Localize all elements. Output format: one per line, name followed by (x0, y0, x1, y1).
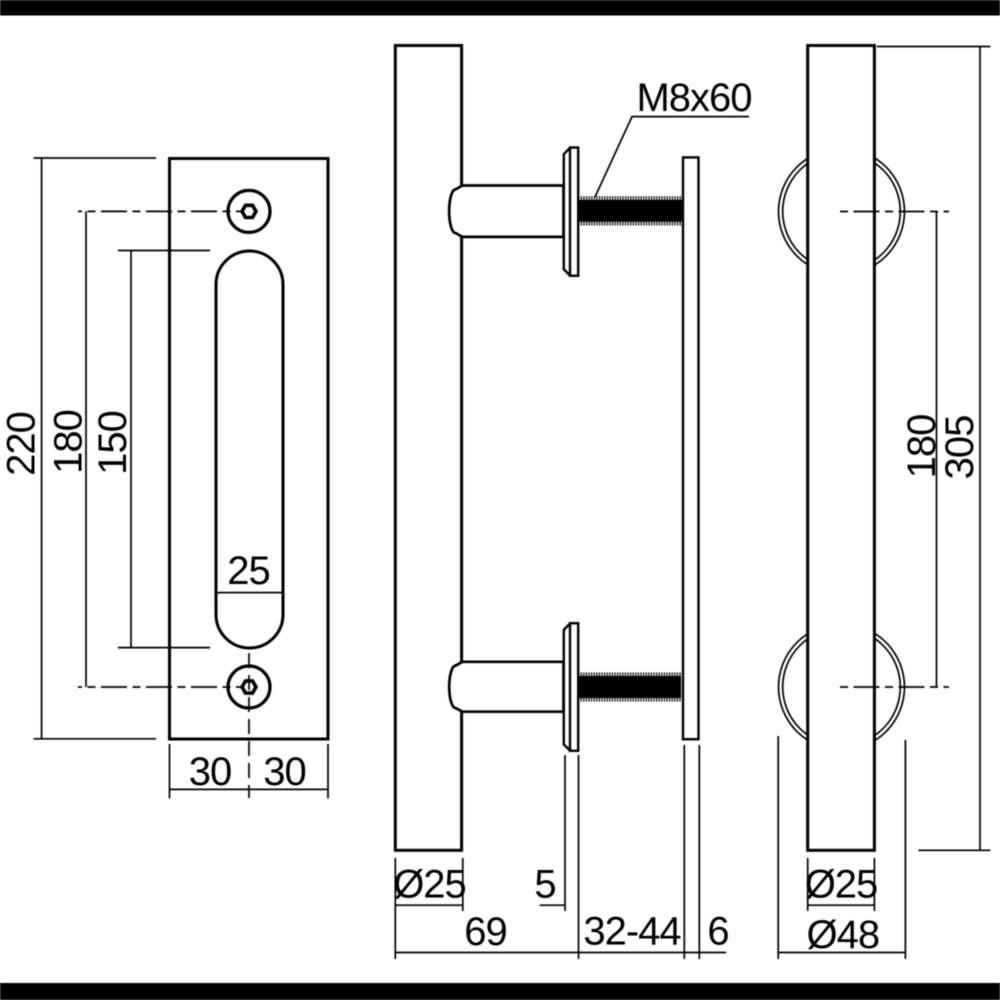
svg-text:30: 30 (189, 750, 232, 794)
plate outline (170, 159, 329, 740)
top threaded rod serration upper (578, 196, 682, 200)
bottom rosette centerline (840, 686, 949, 688)
bottom screw centerline horizontal (78, 686, 242, 688)
door extension right (698, 745, 700, 959)
dim Ø48 extension right (904, 740, 906, 959)
dim 305 line (979, 47, 981, 851)
top threaded rod M8 core (578, 200, 682, 222)
svg-text:25: 25 (227, 549, 270, 593)
bottom screw hex socket (242, 681, 256, 693)
bottom screw centerline vertical (248, 653, 250, 798)
svg-text:180: 180 (47, 410, 91, 474)
top letterbox bar (0, 0, 1000, 16)
bottom letterbox bar (0, 983, 1000, 1000)
bottom rosette flange rim (564, 624, 570, 751)
svg-text:180: 180 (900, 415, 944, 479)
dim 30+30 line (170, 788, 329, 790)
bottom rosette outer circle (779, 624, 905, 750)
label M8x60 leader (595, 117, 749, 197)
bottom screw circle (228, 666, 270, 708)
bottom threaded rod M8 core (578, 676, 681, 698)
top threaded rod serration lower (578, 222, 682, 226)
dim 305 extension bottom (918, 849, 990, 851)
dim 220 extension top (34, 157, 157, 159)
handle bar side (395, 46, 461, 851)
svg-text:30: 30 (263, 750, 306, 794)
top standoff neck (449, 186, 563, 237)
dim 5 extension right (578, 755, 580, 959)
bottom rosette inner circle (783, 628, 901, 746)
svg-text:69: 69 (464, 910, 507, 954)
dim 180 line (85, 211, 87, 687)
svg-text:5: 5 (534, 863, 555, 907)
top rosette centerline (840, 211, 949, 213)
dim 30+30 extension left (169, 744, 171, 798)
dim 220 extension bottom (34, 738, 157, 740)
dim Ø48 extension left (777, 736, 779, 959)
dim Ø25 extension left (right view) (807, 858, 809, 911)
bottom rosette flange face (570, 623, 578, 751)
svg-text:6: 6 (707, 910, 728, 954)
door extension left (683, 745, 685, 959)
top screw hex socket (242, 205, 256, 217)
dim Ø25 extension right (right view) (873, 858, 875, 911)
svg-text:Ø25: Ø25 (393, 863, 466, 907)
handle bar front (808, 46, 875, 851)
dim 5 extension left (564, 755, 566, 911)
dim Ø25 extension left (middle) (394, 858, 396, 959)
dim Ø25 line (right view) (808, 904, 875, 906)
svg-text:32-44: 32-44 (583, 910, 681, 954)
dim 150 extension bottom (118, 647, 210, 649)
bottom standoff neck (449, 662, 563, 712)
dim Ø48 line (778, 952, 905, 954)
svg-text:Ø25: Ø25 (805, 863, 878, 907)
dim 5 line (540, 904, 565, 906)
svg-text:305: 305 (938, 416, 982, 480)
door panel edge (683, 157, 699, 739)
dim 150 extension top (118, 250, 210, 252)
dim 305 extension top (877, 46, 990, 48)
top rosette flange face (570, 148, 578, 276)
top screw circle (228, 190, 270, 232)
svg-text:220: 220 (0, 412, 44, 476)
top rosette flange rim (564, 148, 570, 276)
dim 69 line (395, 952, 726, 954)
top rosette outer circle (779, 149, 905, 275)
bottom threaded rod serration lower (578, 698, 681, 702)
bottom threaded rod serration upper (578, 672, 681, 676)
svg-text:150: 150 (91, 411, 135, 475)
dim 220 line (41, 158, 43, 739)
svg-text:M8x60: M8x60 (636, 76, 751, 120)
dim Ø25 extension right (middle) (462, 858, 464, 911)
dim 30+30 extension right (327, 744, 329, 798)
dim Ø25 line (middle) (395, 904, 463, 906)
finger slot (216, 251, 283, 648)
svg-text:Ø48: Ø48 (806, 913, 879, 957)
top rosette inner circle (783, 153, 901, 271)
top screw centerline (78, 210, 242, 212)
dim 180 line (right) (936, 212, 938, 688)
dim 25 line (slot width) (216, 592, 283, 594)
dim 150 line (130, 251, 132, 648)
